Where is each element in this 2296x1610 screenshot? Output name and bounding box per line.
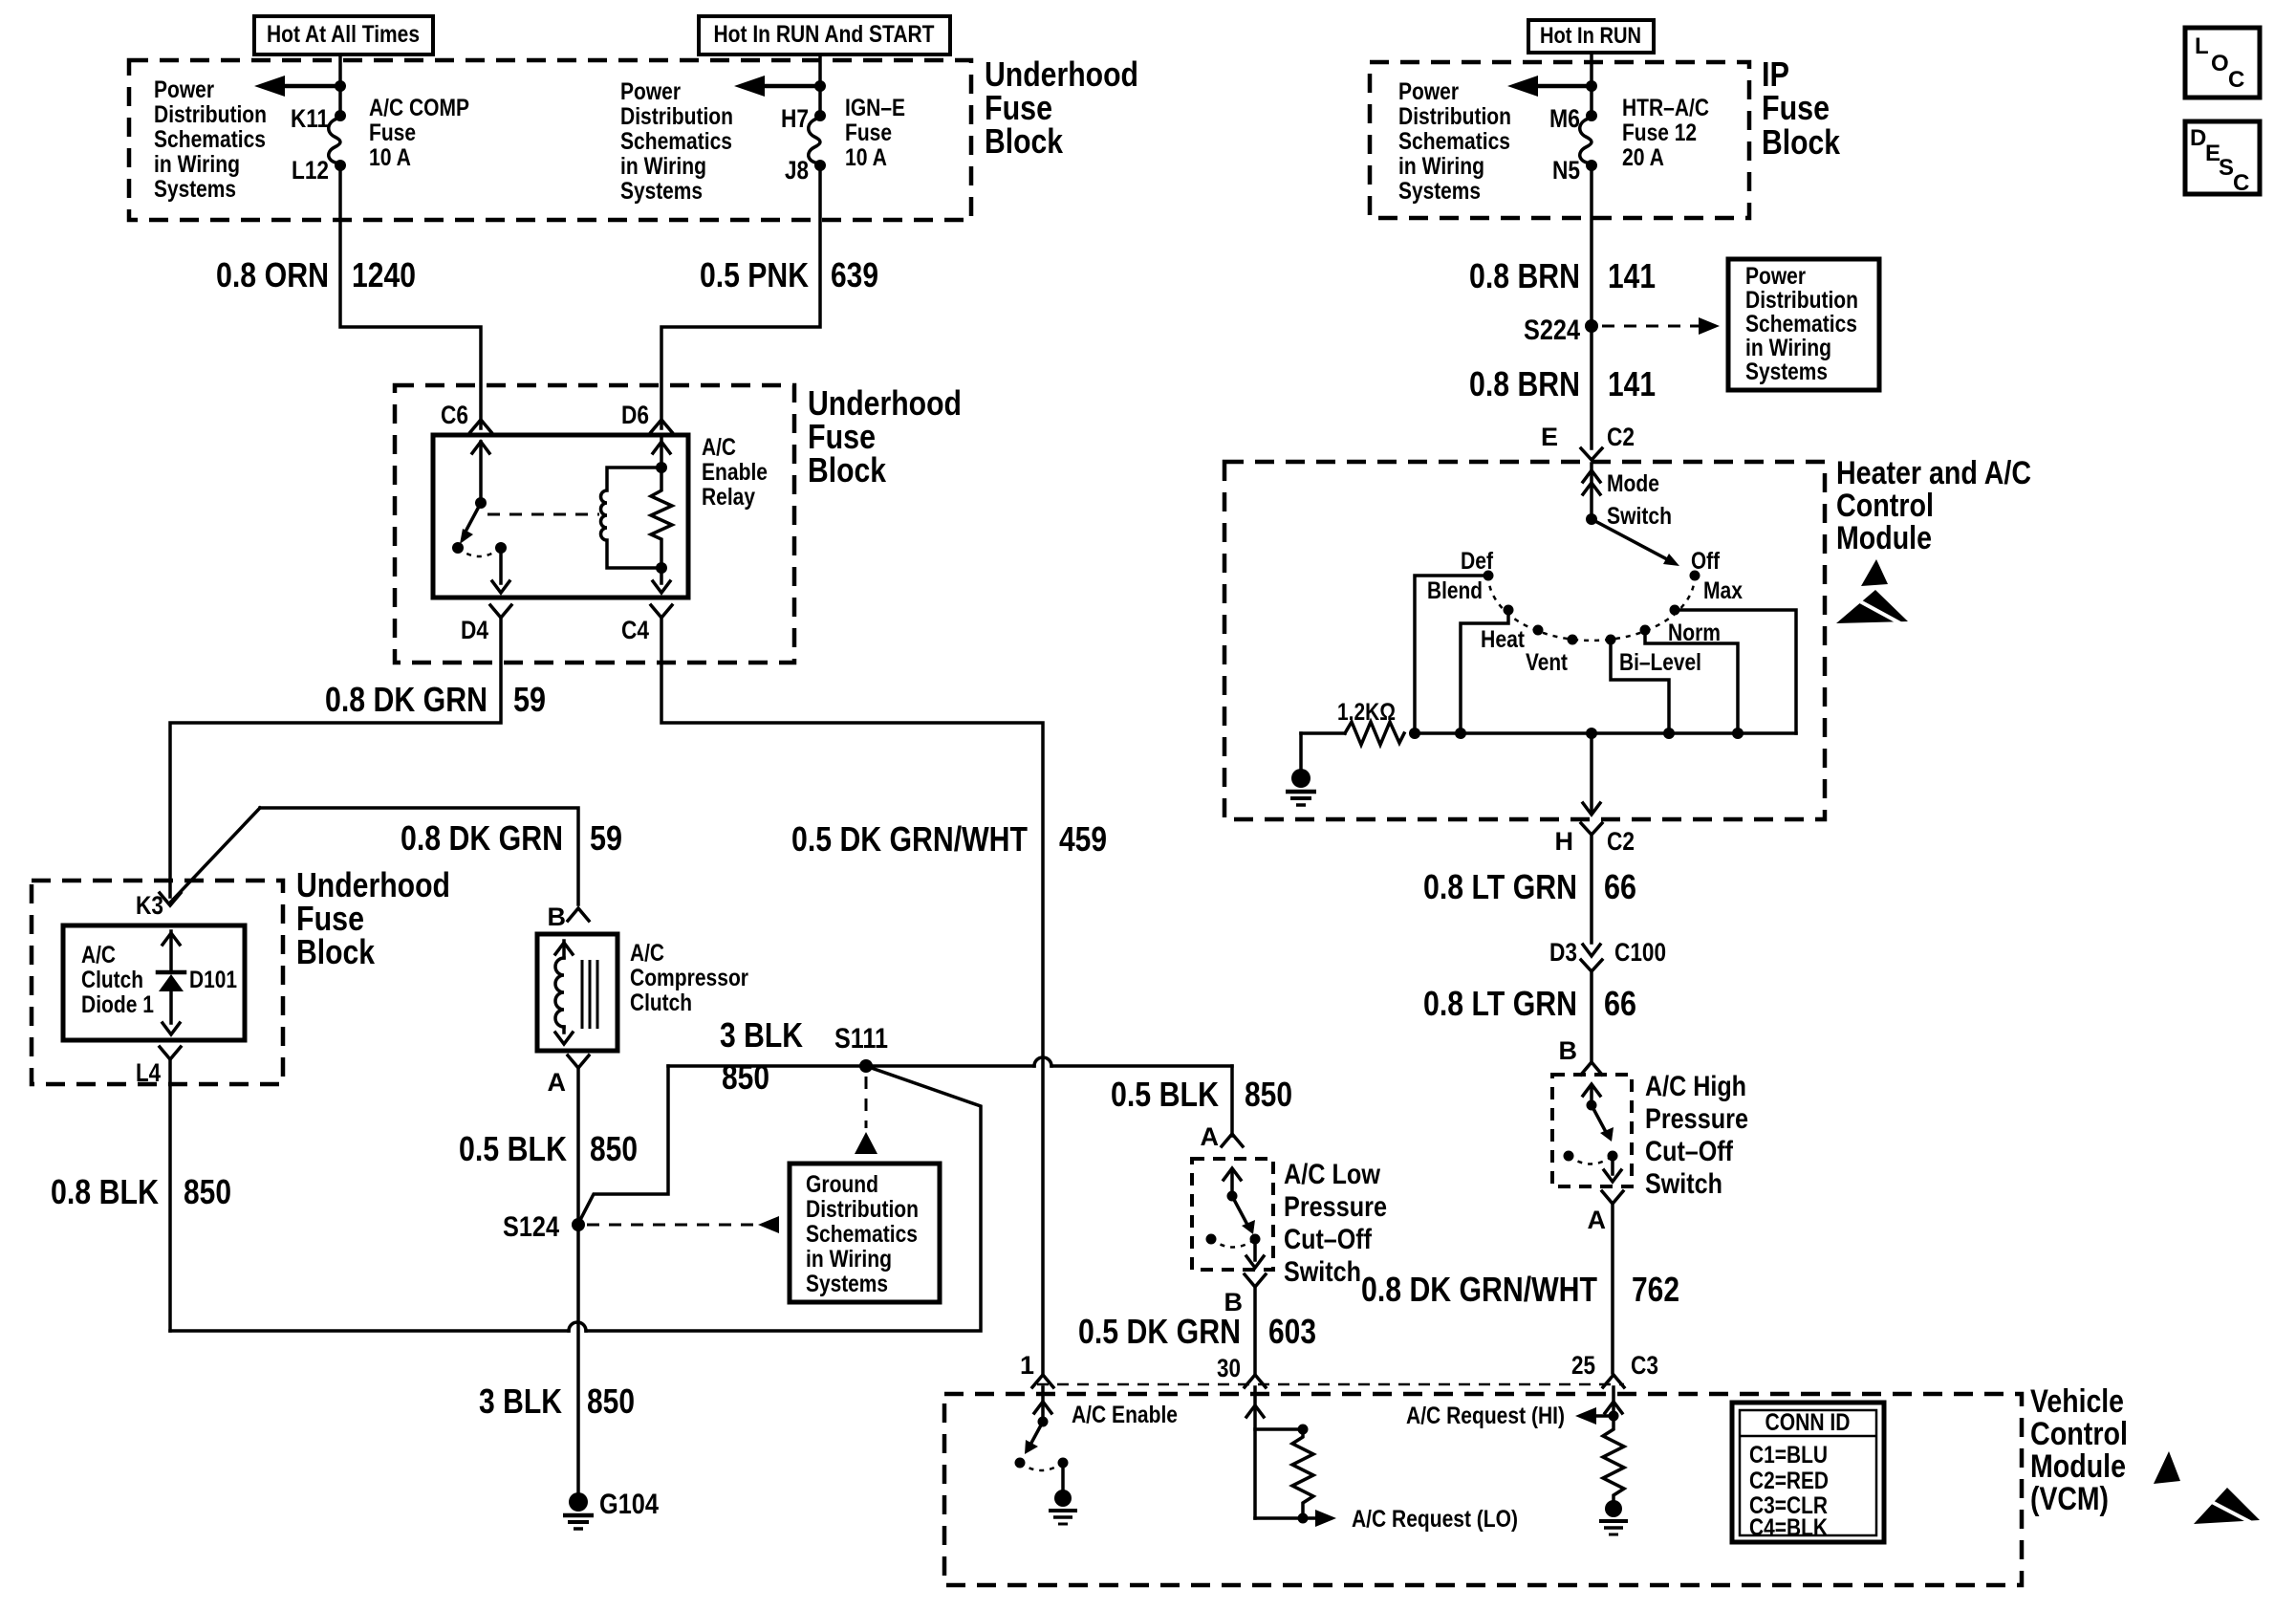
svg-text:Distribution: Distribution bbox=[620, 103, 733, 130]
svg-text:Schematics: Schematics bbox=[1398, 128, 1510, 155]
svg-text:in Wiring: in Wiring bbox=[1398, 153, 1484, 180]
svg-text:Pressure: Pressure bbox=[1284, 1191, 1387, 1223]
svg-text:C2=RED: C2=RED bbox=[1749, 1468, 1829, 1494]
svg-text:B: B bbox=[548, 903, 567, 931]
svg-text:Vehicle: Vehicle bbox=[2030, 1383, 2124, 1420]
svg-text:0.8 BLK: 0.8 BLK bbox=[51, 1172, 159, 1211]
svg-text:10 A: 10 A bbox=[369, 144, 411, 171]
svg-text:Power: Power bbox=[154, 76, 214, 103]
svg-text:Switch: Switch bbox=[1607, 503, 1672, 530]
svg-text:L12: L12 bbox=[292, 156, 329, 185]
svg-text:Def: Def bbox=[1461, 548, 1494, 575]
svg-text:Systems: Systems bbox=[620, 178, 703, 205]
svg-text:Power: Power bbox=[1745, 263, 1806, 290]
svg-text:0.5 PNK: 0.5 PNK bbox=[700, 255, 809, 294]
svg-text:Cut–Off: Cut–Off bbox=[1645, 1136, 1734, 1167]
svg-text:10 A: 10 A bbox=[845, 144, 887, 171]
svg-text:Mode: Mode bbox=[1607, 470, 1659, 497]
svg-text:S124: S124 bbox=[503, 1211, 559, 1243]
svg-text:S224: S224 bbox=[1524, 315, 1580, 346]
svg-text:850: 850 bbox=[590, 1129, 638, 1168]
svg-text:A: A bbox=[1201, 1122, 1220, 1151]
svg-text:Distribution: Distribution bbox=[806, 1196, 919, 1223]
svg-text:C6: C6 bbox=[441, 401, 468, 429]
svg-text:A: A bbox=[548, 1068, 567, 1097]
svg-text:S: S bbox=[2219, 155, 2234, 181]
svg-text:850: 850 bbox=[722, 1057, 769, 1097]
svg-text:D101: D101 bbox=[189, 967, 237, 993]
svg-text:Vent: Vent bbox=[1526, 649, 1569, 676]
svg-text:0.8 LT GRN: 0.8 LT GRN bbox=[1423, 867, 1577, 906]
svg-text:Hot In RUN And START: Hot In RUN And START bbox=[714, 21, 935, 48]
svg-text:O: O bbox=[2211, 51, 2229, 76]
svg-text:C2: C2 bbox=[1607, 827, 1635, 856]
svg-text:Distribution: Distribution bbox=[154, 101, 267, 128]
svg-text:1.2KΩ: 1.2KΩ bbox=[1337, 699, 1396, 726]
svg-text:0.8 ORN: 0.8 ORN bbox=[216, 255, 329, 294]
svg-text:Systems: Systems bbox=[1398, 178, 1481, 205]
svg-text:H: H bbox=[1555, 827, 1574, 856]
svg-text:A/C Low: A/C Low bbox=[1284, 1159, 1381, 1190]
svg-text:B: B bbox=[1559, 1036, 1578, 1065]
svg-text:C4=BLK: C4=BLK bbox=[1749, 1514, 1828, 1541]
svg-text:Distribution: Distribution bbox=[1745, 287, 1858, 314]
svg-text:IGN–E: IGN–E bbox=[845, 95, 905, 121]
svg-text:A/C High: A/C High bbox=[1645, 1071, 1746, 1102]
svg-text:Systems: Systems bbox=[1745, 359, 1828, 385]
svg-text:S111: S111 bbox=[834, 1023, 888, 1055]
svg-text:J8: J8 bbox=[785, 156, 809, 185]
svg-text:A/C: A/C bbox=[630, 940, 664, 967]
svg-text:Compressor: Compressor bbox=[630, 965, 748, 991]
svg-text:Blend: Blend bbox=[1427, 577, 1483, 604]
svg-text:850: 850 bbox=[1245, 1075, 1292, 1114]
svg-text:3 BLK: 3 BLK bbox=[720, 1015, 803, 1055]
svg-text:Hot At All Times: Hot At All Times bbox=[267, 21, 420, 48]
svg-text:Power: Power bbox=[1398, 78, 1459, 105]
svg-text:Fuse: Fuse bbox=[845, 120, 892, 146]
svg-text:L4: L4 bbox=[136, 1058, 161, 1087]
svg-text:30: 30 bbox=[1217, 1354, 1241, 1382]
svg-text:66: 66 bbox=[1604, 984, 1636, 1023]
svg-text:20 A: 20 A bbox=[1622, 144, 1664, 171]
svg-text:in Wiring: in Wiring bbox=[620, 153, 706, 180]
svg-text:N5: N5 bbox=[1552, 156, 1580, 185]
svg-text:D: D bbox=[2190, 125, 2206, 151]
svg-text:Schematics: Schematics bbox=[620, 128, 732, 155]
svg-text:Heat: Heat bbox=[1481, 626, 1526, 653]
svg-text:H7: H7 bbox=[781, 104, 809, 133]
svg-text:K3: K3 bbox=[136, 891, 163, 920]
svg-text:Heater and A/C: Heater and A/C bbox=[1836, 455, 2031, 491]
svg-text:Hot In RUN: Hot In RUN bbox=[1540, 23, 1641, 49]
svg-text:C4: C4 bbox=[621, 616, 649, 644]
svg-text:762: 762 bbox=[1632, 1270, 1679, 1309]
svg-text:Schematics: Schematics bbox=[1745, 311, 1857, 337]
svg-text:850: 850 bbox=[184, 1172, 231, 1211]
svg-text:Power: Power bbox=[620, 78, 681, 105]
svg-text:Switch: Switch bbox=[1645, 1168, 1722, 1200]
svg-text:0.5 DK GRN/WHT: 0.5 DK GRN/WHT bbox=[791, 819, 1028, 859]
svg-text:L: L bbox=[2195, 33, 2209, 59]
svg-text:Systems: Systems bbox=[154, 176, 236, 203]
svg-text:0.8 BRN: 0.8 BRN bbox=[1469, 256, 1580, 295]
svg-text:59: 59 bbox=[590, 818, 622, 858]
svg-text:A/C: A/C bbox=[81, 942, 116, 968]
svg-text:M6: M6 bbox=[1549, 104, 1580, 133]
svg-text:Max: Max bbox=[1703, 577, 1743, 604]
svg-text:A/C Request (HI): A/C Request (HI) bbox=[1406, 1403, 1565, 1429]
svg-text:A/C: A/C bbox=[702, 434, 736, 461]
svg-text:Cut–Off: Cut–Off bbox=[1284, 1224, 1373, 1255]
svg-text:0.5 BLK: 0.5 BLK bbox=[459, 1129, 567, 1168]
svg-text:Block: Block bbox=[808, 450, 887, 490]
svg-text:HTR–A/C: HTR–A/C bbox=[1622, 95, 1709, 121]
svg-text:Distribution: Distribution bbox=[1398, 103, 1511, 130]
svg-text:0.8 LT GRN: 0.8 LT GRN bbox=[1423, 984, 1577, 1023]
svg-text:Ground: Ground bbox=[806, 1171, 878, 1198]
svg-text:Control: Control bbox=[2030, 1416, 2128, 1452]
svg-text:E: E bbox=[1541, 423, 1558, 451]
svg-text:Block: Block bbox=[985, 121, 1064, 161]
svg-text:66: 66 bbox=[1604, 867, 1636, 906]
svg-text:Schematics: Schematics bbox=[154, 126, 266, 153]
svg-text:K11: K11 bbox=[291, 104, 329, 133]
svg-text:A/C Request (LO): A/C Request (LO) bbox=[1352, 1506, 1518, 1533]
svg-text:3 BLK: 3 BLK bbox=[479, 1382, 562, 1421]
svg-text:G104: G104 bbox=[599, 1489, 659, 1520]
svg-text:Fuse 12: Fuse 12 bbox=[1622, 120, 1697, 146]
svg-text:Pressure: Pressure bbox=[1645, 1103, 1748, 1135]
svg-text:Module: Module bbox=[1836, 520, 1932, 556]
svg-text:639: 639 bbox=[831, 255, 878, 294]
svg-text:A/C COMP: A/C COMP bbox=[369, 95, 469, 121]
svg-text:Bi–Level: Bi–Level bbox=[1619, 649, 1701, 676]
svg-text:Schematics: Schematics bbox=[806, 1221, 918, 1248]
svg-text:Fuse: Fuse bbox=[369, 120, 416, 146]
svg-text:in Wiring: in Wiring bbox=[154, 151, 240, 178]
svg-text:(VCM): (VCM) bbox=[2030, 1481, 2109, 1517]
svg-text:59: 59 bbox=[513, 680, 546, 719]
svg-text:0.5 DK GRN: 0.5 DK GRN bbox=[1078, 1312, 1241, 1351]
svg-text:A: A bbox=[1588, 1206, 1607, 1234]
svg-text:D4: D4 bbox=[461, 616, 488, 644]
svg-text:Off: Off bbox=[1691, 548, 1721, 575]
svg-text:Fuse: Fuse bbox=[1762, 88, 1830, 127]
svg-text:Block: Block bbox=[1762, 122, 1841, 162]
svg-text:Switch: Switch bbox=[1284, 1256, 1361, 1288]
svg-text:850: 850 bbox=[587, 1382, 635, 1421]
svg-text:141: 141 bbox=[1608, 364, 1656, 403]
svg-text:0.8 DK GRN/WHT: 0.8 DK GRN/WHT bbox=[1361, 1270, 1597, 1309]
svg-text:1240: 1240 bbox=[352, 255, 416, 294]
svg-text:Module: Module bbox=[2030, 1448, 2126, 1485]
svg-text:603: 603 bbox=[1268, 1312, 1316, 1351]
svg-text:Systems: Systems bbox=[806, 1271, 888, 1297]
svg-text:in Wiring: in Wiring bbox=[806, 1246, 892, 1273]
svg-text:C2: C2 bbox=[1607, 423, 1635, 451]
svg-text:C: C bbox=[2228, 67, 2244, 93]
svg-text:Diode 1: Diode 1 bbox=[81, 991, 154, 1018]
svg-text:C100: C100 bbox=[1614, 938, 1666, 967]
svg-text:C3: C3 bbox=[1631, 1351, 1658, 1380]
svg-text:C: C bbox=[2233, 170, 2249, 196]
svg-text:459: 459 bbox=[1059, 819, 1107, 859]
svg-text:CONN ID: CONN ID bbox=[1765, 1409, 1851, 1436]
svg-text:0.8 DK GRN: 0.8 DK GRN bbox=[325, 680, 487, 719]
svg-text:25: 25 bbox=[1571, 1351, 1595, 1380]
svg-text:Block: Block bbox=[296, 932, 376, 971]
svg-text:Enable: Enable bbox=[702, 459, 768, 486]
svg-text:Clutch: Clutch bbox=[81, 967, 143, 993]
svg-text:0.8 BRN: 0.8 BRN bbox=[1469, 364, 1580, 403]
svg-text:A/C Enable: A/C Enable bbox=[1072, 1402, 1178, 1428]
svg-text:0.8 DK GRN: 0.8 DK GRN bbox=[401, 818, 563, 858]
svg-text:Control: Control bbox=[1836, 488, 1934, 524]
svg-text:0.5 BLK: 0.5 BLK bbox=[1111, 1075, 1219, 1114]
svg-text:C1=BLU: C1=BLU bbox=[1749, 1442, 1828, 1469]
svg-text:Relay: Relay bbox=[702, 484, 755, 511]
svg-text:1: 1 bbox=[1020, 1351, 1034, 1380]
svg-text:D3: D3 bbox=[1549, 938, 1577, 967]
svg-text:Clutch: Clutch bbox=[630, 990, 692, 1016]
svg-text:141: 141 bbox=[1608, 256, 1656, 295]
svg-text:in Wiring: in Wiring bbox=[1745, 335, 1831, 361]
svg-text:D6: D6 bbox=[621, 401, 649, 429]
